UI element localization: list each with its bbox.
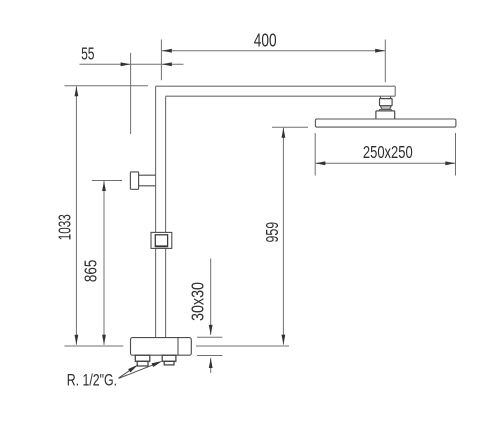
dim 959 arrows — [282, 128, 286, 345]
dim 1033 lines — [65, 86, 149, 346]
dim 400 arrows — [162, 49, 385, 53]
dim 55 arrows — [121, 62, 172, 66]
dim 865 lines — [92, 181, 122, 345]
svg-text:250x250: 250x250 — [363, 142, 413, 162]
leader to right outlet — [119, 361, 163, 378]
svg-text:865: 865 — [81, 260, 101, 282]
shower head plate — [315, 119, 456, 127]
svg-text:55: 55 — [81, 43, 94, 63]
dim 250x250 lines — [315, 133, 455, 176]
left outlet — [135, 355, 150, 366]
svg-text:959: 959 — [262, 222, 282, 243]
head connector base — [376, 111, 395, 119]
right outlet — [162, 355, 176, 365]
slider bracket outer — [151, 232, 172, 248]
dim 30x30 arrows — [209, 325, 213, 368]
shower arm — [156, 86, 396, 96]
leader to left outlet — [119, 365, 139, 379]
valve body divider — [177, 338, 179, 356]
dim 30x30 lines — [197, 259, 222, 374]
slider bracket inner — [155, 235, 167, 247]
knob stem — [139, 175, 156, 186]
head connector taper — [380, 106, 391, 110]
valve body — [131, 338, 192, 356]
svg-text:30x30: 30x30 — [187, 282, 207, 321]
dim 400 lines — [162, 40, 385, 83]
riser pipe — [156, 86, 166, 337]
head connector ring — [380, 109, 392, 111]
head connector nut — [380, 99, 393, 106]
svg-text:1033: 1033 — [55, 214, 75, 240]
diverter knob — [130, 172, 138, 189]
dim 55 lines — [80, 40, 184, 135]
dim 1033 arrows — [75, 86, 79, 345]
dim 865 arrows — [102, 181, 106, 345]
dim 959 lines — [196, 127, 308, 346]
svg-text:400: 400 — [254, 30, 277, 50]
dim 250x250 arrows — [315, 161, 455, 165]
head connector collar — [381, 96, 391, 98]
svg-text:R. 1/2"G.: R. 1/2"G. — [67, 372, 117, 390]
